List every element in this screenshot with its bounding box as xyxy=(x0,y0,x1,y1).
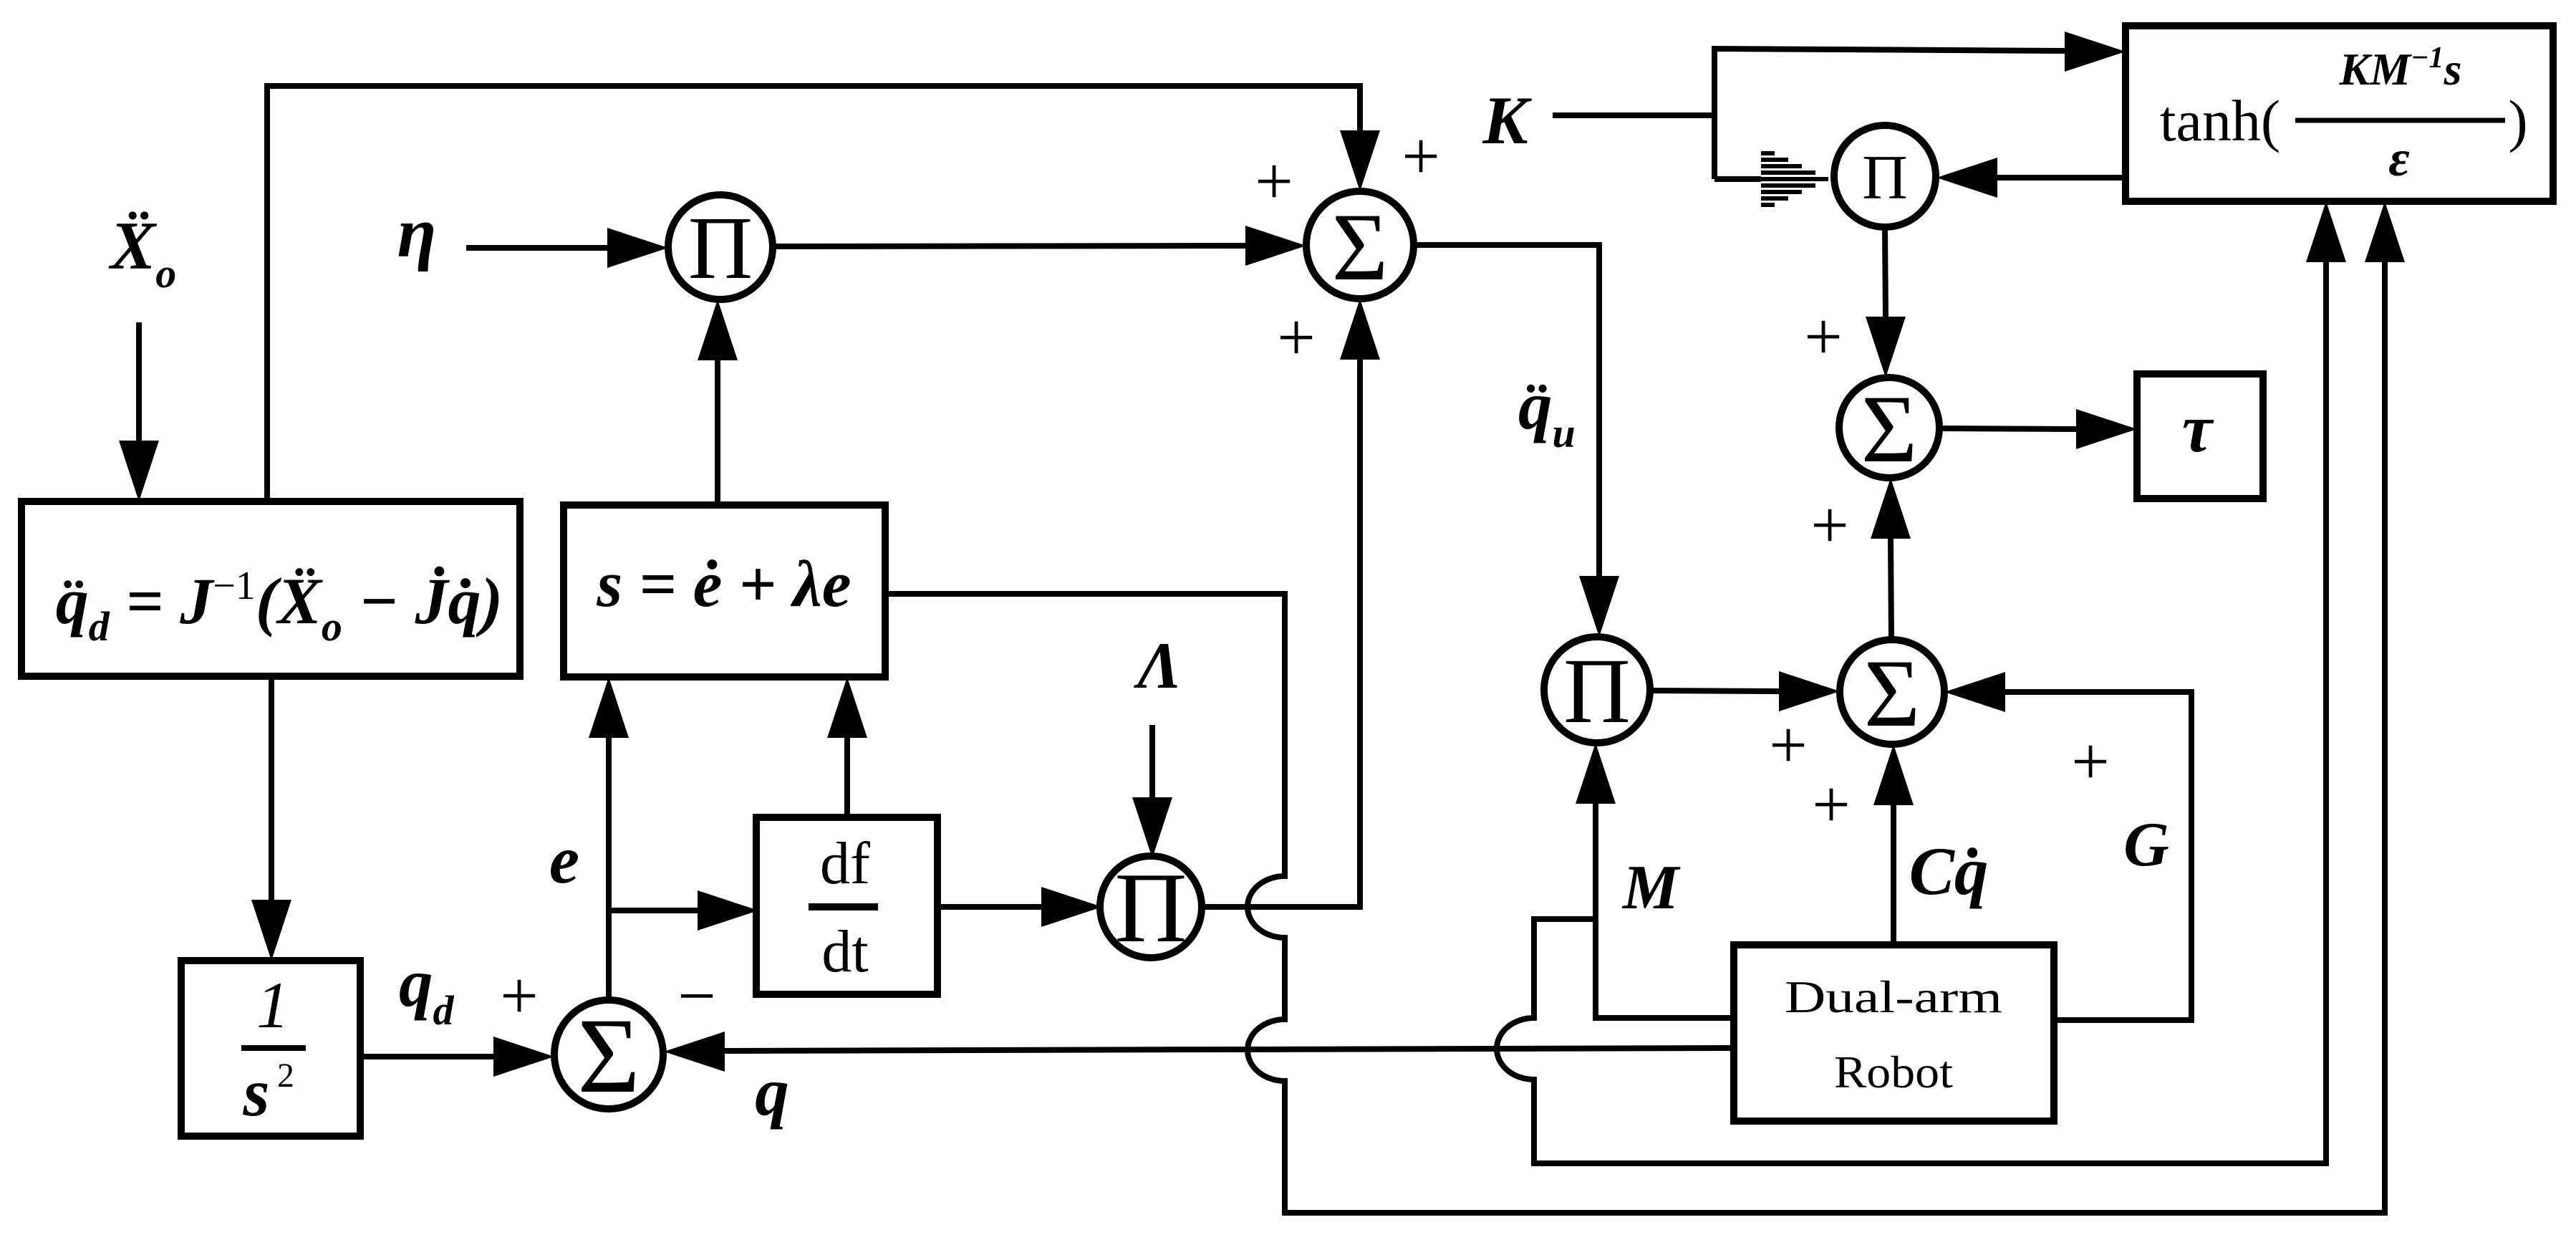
wire e-dot from B3 top into B2 bottom second input xyxy=(827,677,867,817)
svg-text:Σ: Σ xyxy=(1864,640,1921,747)
sum junction S3 torque-terms sum xyxy=(1840,640,1944,747)
wire s from B2 top into product P1 bottom xyxy=(698,299,738,505)
wire e from sum S4 up into B2 bottom input with branch junction to B3 xyxy=(589,677,758,1000)
svg-text:Π: Π xyxy=(1114,852,1187,963)
wire eta input into product P1 xyxy=(466,228,668,268)
svg-text:Π: Π xyxy=(1862,143,1908,213)
wire q feedback from robot B7 left into sum S4 right input xyxy=(664,1032,1734,1072)
block B6 torque output tau xyxy=(2137,374,2263,499)
svg-text:τ: τ xyxy=(2182,390,2214,466)
block B5 saturation tanh(KM^-1 s / eps) xyxy=(2126,26,2553,201)
svg-text:2: 2 xyxy=(277,1057,294,1095)
label Lambda xyxy=(1133,629,1181,702)
label plus at S3 right input xyxy=(2071,724,2110,799)
svg-text:tanh(: tanh( xyxy=(2160,88,2280,153)
svg-text:1: 1 xyxy=(256,969,289,1042)
svg-text:K: K xyxy=(1482,82,1532,158)
sum junction S4 position error sum xyxy=(554,996,663,1115)
svg-text:M: M xyxy=(1621,853,1681,923)
svg-text:): ) xyxy=(2508,88,2527,153)
product junction P2 lambda multiplier xyxy=(1100,852,1202,963)
svg-text:+: + xyxy=(1804,299,1843,375)
wire G loop from robot B7 right into sum S3 right input xyxy=(1944,672,2191,1020)
label Xo-ddot xyxy=(108,208,176,297)
svg-text:ε: ε xyxy=(2388,130,2410,187)
svg-text:q̈d = J−1(Ẍo − J̇q̇): q̈d = J−1(Ẍo − J̇q̇) xyxy=(56,564,503,650)
wire sum S2 output into tau block B6 xyxy=(1939,409,2137,449)
label plus at S4 left input xyxy=(500,958,539,1034)
label plus at S1 bottom input xyxy=(1277,299,1316,375)
label q xyxy=(755,1054,789,1130)
svg-text:df: df xyxy=(820,830,870,897)
wire tanh B5 output left into product P4 right input xyxy=(1936,158,2126,198)
product junction P3 inertia multiplier xyxy=(1544,637,1650,743)
svg-text:Σ: Σ xyxy=(1332,194,1389,301)
wire C-q-dot from robot B7 top into sum S3 bottom input xyxy=(1873,744,1914,945)
label eta xyxy=(397,193,437,272)
wire product P4 output down into sum S2 top input xyxy=(1866,227,1906,378)
block B7 Dual-arm Robot plant xyxy=(1734,945,2054,1121)
svg-text:+: + xyxy=(1812,766,1851,842)
wire q-ddot-d feedforward from B1 top to sum S1 top input xyxy=(267,86,1380,501)
svg-text:Π: Π xyxy=(688,199,753,298)
label G xyxy=(2123,810,2169,880)
wire product P3 output into sum S3 left input xyxy=(1650,671,1840,711)
label plus at S2 top input xyxy=(1804,299,1843,375)
svg-text:e: e xyxy=(549,822,579,898)
label q-d xyxy=(399,945,455,1034)
svg-text:+: + xyxy=(1810,487,1849,563)
svg-text:q: q xyxy=(755,1054,789,1130)
svg-text:+: + xyxy=(2071,724,2110,799)
wire product P1 output into sum S1 left input xyxy=(773,226,1306,266)
svg-text:s = ė + λe: s = ė + λe xyxy=(596,547,851,620)
wire lambda-e-dot from product P2 output up into sum S1 bottom input xyxy=(1200,299,1380,907)
wire from B3 right output into product P2 left input xyxy=(936,887,1102,927)
sum junction S1 acceleration sum xyxy=(1306,191,1414,301)
wire K input splitting to tanh B5 left input and hatched arrow into product P4 left xyxy=(1553,32,2126,207)
label e xyxy=(549,822,579,898)
block B3 differentiator df/dt xyxy=(756,817,937,994)
product junction P1 eta multiplier xyxy=(668,195,773,299)
sum junction S2 output sum xyxy=(1839,376,1939,483)
block B4 double integrator 1/s^2 xyxy=(181,961,360,1136)
wire from B1 bottom into integrator B4 top xyxy=(251,676,291,961)
svg-text:Λ: Λ xyxy=(1133,629,1181,702)
svg-text:Σ: Σ xyxy=(577,996,640,1115)
svg-text:Σ: Σ xyxy=(1861,376,1918,483)
svg-text:Cq̇: Cq̇ xyxy=(1909,833,1989,909)
svg-text:Robot: Robot xyxy=(1834,1047,1953,1097)
label q-ddot-u xyxy=(1518,367,1576,456)
block B1 inverse-Jacobian equation xyxy=(21,501,520,676)
block B2 sliding-surface equation s = e-dot + lambda*e xyxy=(564,505,885,677)
svg-text:+: + xyxy=(1255,143,1293,219)
wire Lambda input into product P2 top xyxy=(1132,725,1172,858)
svg-text:Dual-arm: Dual-arm xyxy=(1785,971,2002,1022)
product junction P4 K multiplier xyxy=(1834,125,1936,227)
svg-text:−: − xyxy=(677,958,716,1034)
label M xyxy=(1621,853,1681,923)
wire M from robot B7 left into product P3 bottom xyxy=(1576,743,1734,1018)
label plus at S1 left input xyxy=(1255,143,1293,219)
label plus at S3 bottom input xyxy=(1812,766,1851,842)
svg-text:+: + xyxy=(1277,299,1316,375)
label C-q-dot xyxy=(1909,833,1989,909)
svg-text:KM−1s: KM−1s xyxy=(2339,42,2462,95)
svg-text:η: η xyxy=(397,193,437,272)
wire q-d from B4 output into sum S4 left input xyxy=(360,1037,554,1077)
svg-text:+: + xyxy=(1402,118,1440,194)
label minus at S4 right input xyxy=(677,958,716,1034)
wire sum S3 output up into sum S2 bottom input xyxy=(1871,478,1911,640)
svg-text:Π: Π xyxy=(1563,640,1631,743)
label plus at S1 top input xyxy=(1402,118,1440,194)
svg-text:+: + xyxy=(500,958,539,1034)
wire M branch with hop along bottom line into tanh B5 first bottom input xyxy=(1497,201,2346,1163)
svg-text:dt: dt xyxy=(821,918,868,985)
wire q-ddot-u from sum S1 output down into product P3 top xyxy=(1414,245,1619,637)
svg-text:+: + xyxy=(1769,707,1808,783)
svg-text:G: G xyxy=(2123,810,2169,880)
wire s path from B2 output down with two hops along bottom to tanh B5 second bottom input xyxy=(885,201,2405,1213)
label K xyxy=(1482,82,1532,158)
label plus at S2 bottom input xyxy=(1810,487,1849,563)
label plus at S3 left input xyxy=(1769,707,1808,783)
wire Xo-ddot input arrow into B1 top xyxy=(119,322,159,501)
svg-text:s: s xyxy=(243,1054,270,1130)
